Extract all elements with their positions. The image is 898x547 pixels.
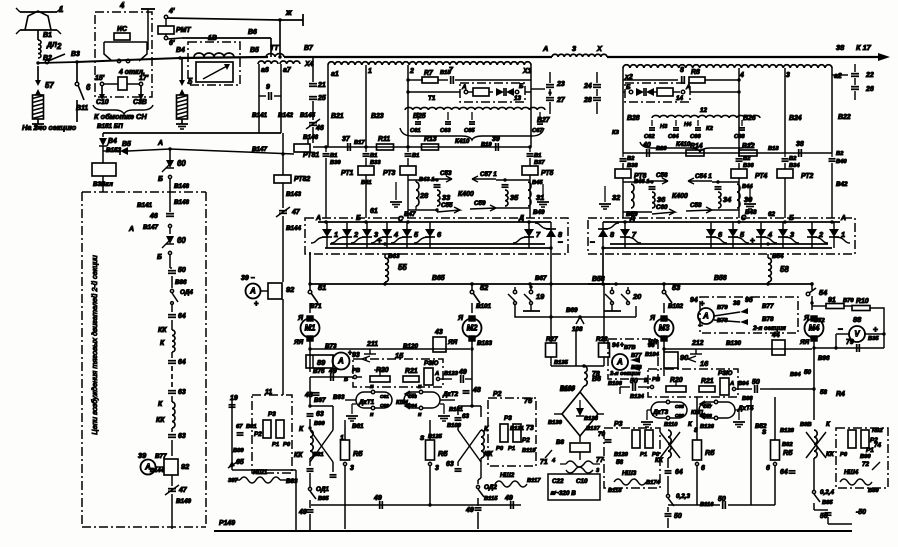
svg-text:Б: Б xyxy=(356,215,361,222)
relay ИС xyxy=(114,33,130,40)
svg-text:С59: С59 xyxy=(474,200,486,207)
svg-text:6': 6' xyxy=(169,40,175,47)
svg-text:н: н xyxy=(370,384,374,390)
svg-text:На 2-ю секцию: На 2-ю секцию xyxy=(22,123,77,132)
wire B147 xyxy=(170,149,294,154)
svg-text:44: 44 xyxy=(771,332,780,339)
svg-text:28: 28 xyxy=(583,97,592,104)
resistor R7 B15 cap 7 xyxy=(406,78,409,81)
cap 49 bottom M2 xyxy=(475,507,482,509)
resistor R5 M4 xyxy=(774,397,776,440)
svg-text:57: 57 xyxy=(45,81,54,90)
switch 51 xyxy=(309,284,311,290)
svg-text:2: 2 xyxy=(353,230,359,239)
svg-text:а2: а2 xyxy=(834,73,842,80)
svg-text:Б: Б xyxy=(158,176,163,183)
motor M3 xyxy=(661,316,667,321)
svg-text:62: 62 xyxy=(768,211,776,218)
svg-text:ДкТ1: ДкТ1 xyxy=(358,399,375,406)
ground 5 xyxy=(181,119,183,124)
svg-text:50: 50 xyxy=(804,369,812,376)
KK crossed coil M1 xyxy=(310,430,313,458)
svg-text:В3: В3 xyxy=(71,51,80,58)
svg-text:КК: КК xyxy=(156,417,165,424)
wire top to ж xyxy=(167,18,280,20)
svg-text:1В: 1В xyxy=(208,35,217,42)
bottom bus xyxy=(214,530,852,532)
svg-text:R28: R28 xyxy=(596,336,608,343)
bus B65 xyxy=(310,283,610,285)
svg-text:В94: В94 xyxy=(790,372,801,378)
svg-text:Р2: Р2 xyxy=(493,391,502,398)
tap verticals left transformer xyxy=(327,65,329,147)
svg-text:3: 3 xyxy=(350,465,354,472)
svg-text:-50: -50 xyxy=(856,509,866,516)
svg-text:R14: R14 xyxy=(690,143,703,150)
svg-text:В115: В115 xyxy=(484,496,498,502)
svg-text:С65: С65 xyxy=(464,128,475,134)
svg-text:50: 50 xyxy=(752,379,760,386)
svg-text:В149: В149 xyxy=(176,498,192,505)
terminal T top xyxy=(141,8,155,10)
svg-text:А: А xyxy=(157,140,163,147)
svg-text:R27: R27 xyxy=(546,336,558,343)
svg-text:R21: R21 xyxy=(405,368,418,375)
svg-text:13: 13 xyxy=(514,95,522,102)
svg-text:В128: В128 xyxy=(780,428,795,434)
svg-text:В1: В1 xyxy=(330,153,337,159)
capacitor 9 xyxy=(259,95,266,97)
svg-text:В8В: В8В xyxy=(800,422,812,428)
svg-text:49: 49 xyxy=(373,495,382,502)
svg-text:В18: В18 xyxy=(768,146,779,152)
svg-text:М4: М4 xyxy=(809,323,820,332)
svg-text:В146: В146 xyxy=(303,134,319,141)
svg-text:Р2: Р2 xyxy=(254,431,262,438)
svg-text:А: А xyxy=(729,381,734,387)
svg-text:а7: а7 xyxy=(283,67,292,74)
cap 46 B146 xyxy=(309,122,317,124)
ammeter box M3 xyxy=(608,339,658,379)
switch 2 xyxy=(36,61,39,64)
switch 19 double xyxy=(514,287,516,290)
svg-text:РЗЮ: РЗЮ xyxy=(424,360,439,367)
svg-text:Х4: Х4 xyxy=(304,61,314,68)
svg-text:74: 74 xyxy=(874,442,882,449)
row B94 50 cap xyxy=(770,388,814,390)
KK crossed coil M2 xyxy=(481,430,484,458)
svg-text:60: 60 xyxy=(177,236,186,245)
svg-text:В144: В144 xyxy=(286,225,302,232)
svg-text:С64: С64 xyxy=(668,134,679,140)
svg-text:211: 211 xyxy=(366,341,378,348)
relay ВЗВкл xyxy=(92,163,116,176)
svg-text:Н3: Н3 xyxy=(660,124,668,130)
svg-text:ЯЯ: ЯЯ xyxy=(293,339,304,346)
ground left of 32 xyxy=(604,186,606,202)
svg-text:В23: В23 xyxy=(371,113,384,120)
svg-text:52: 52 xyxy=(480,283,489,292)
M3 column B124 B126 xyxy=(619,387,621,394)
svg-text:48: 48 xyxy=(304,392,313,399)
svg-text:+: + xyxy=(700,299,705,308)
svg-text:К400: К400 xyxy=(672,193,688,200)
svg-text:А: А xyxy=(249,286,256,295)
svg-text:В101: В101 xyxy=(476,303,492,310)
svg-text:В48: В48 xyxy=(745,209,757,216)
svg-text:В2: В2 xyxy=(627,156,635,162)
svg-text:РЗЮ: РЗЮ xyxy=(718,370,733,377)
row R11 R13 K410 y150 xyxy=(313,146,366,148)
svg-text:С66: С66 xyxy=(690,134,701,140)
svg-text:В94: В94 xyxy=(738,381,749,387)
resistor 43 xyxy=(433,337,446,352)
svg-text:В11: В11 xyxy=(76,105,88,112)
svg-text:С53: С53 xyxy=(440,170,452,177)
svg-text:В130: В130 xyxy=(726,340,742,347)
wire НШ1 block to bottom bus xyxy=(295,480,297,530)
switch 20 double xyxy=(611,287,613,290)
resistor arrester 5 xyxy=(177,95,188,119)
svg-text:63: 63 xyxy=(462,413,470,420)
svg-text:48: 48 xyxy=(472,387,481,394)
PT4 branch xyxy=(736,158,743,160)
svg-text:В109: В109 xyxy=(447,423,462,429)
svg-text:2: 2 xyxy=(56,42,62,51)
svg-text:В81: В81 xyxy=(313,452,324,458)
svg-text:ДЛ: ДЛ xyxy=(46,42,57,49)
svg-text:С68: С68 xyxy=(734,134,745,140)
tap verticals right transformer xyxy=(622,68,624,153)
svg-text:В7: В7 xyxy=(304,45,314,52)
svg-text:39 −: 39 − xyxy=(241,275,255,282)
contact ОД1 xyxy=(308,487,311,490)
block M3 P-cluster R3 xyxy=(604,428,660,488)
ground right of 31 xyxy=(542,184,544,200)
caps 24 28 xyxy=(593,84,601,86)
cap 47 column xyxy=(279,210,287,212)
svg-text:В102: В102 xyxy=(668,303,684,310)
svg-text:12: 12 xyxy=(700,107,708,114)
svg-text:4': 4' xyxy=(168,8,175,15)
thyristor 60 xyxy=(169,149,171,160)
svg-text:Т1: Т1 xyxy=(428,95,436,102)
P-block 11 dash-dot xyxy=(252,395,292,473)
svg-text:КК: КК xyxy=(158,327,167,334)
svg-text:46: 46 xyxy=(149,213,158,220)
svg-text:В99: В99 xyxy=(314,421,325,427)
wire B138 column xyxy=(575,330,577,366)
svg-text:ИС: ИС xyxy=(117,26,128,33)
svg-text:94: 94 xyxy=(612,342,620,349)
svg-text:38: 38 xyxy=(796,141,804,148)
wire M2 R5 join B85 row xyxy=(428,503,431,506)
svg-text:С10: С10 xyxy=(576,478,588,485)
svg-text:В82: В82 xyxy=(782,442,793,448)
svg-text:РВ: РВ xyxy=(352,368,360,374)
svg-text:+: + xyxy=(254,299,259,308)
svg-text:28: 28 xyxy=(419,191,429,200)
svg-text:РТ82: РТ82 xyxy=(294,176,310,183)
svg-text:Р0: Р0 xyxy=(283,442,291,448)
coil cluster K400 34 30 right xyxy=(688,178,712,184)
svg-text:14: 14 xyxy=(676,95,684,102)
row B75 49 contacts xyxy=(310,376,353,378)
cap 49 bottom M1 xyxy=(307,509,314,511)
svg-text:В91: В91 xyxy=(246,424,257,430)
svg-text:1: 1 xyxy=(841,230,845,239)
relays P3 P2 P1 P0 right xyxy=(500,424,508,442)
ground 61 xyxy=(395,182,397,200)
svg-text:В85: В85 xyxy=(822,500,833,506)
svg-text:R8: R8 xyxy=(691,69,700,76)
wire M3 column down xyxy=(663,368,665,376)
svg-text:Р3: Р3 xyxy=(268,411,276,418)
svg-text:В21: В21 xyxy=(331,113,344,120)
svg-text:3: 3 xyxy=(435,465,439,472)
PT6 branch xyxy=(620,158,627,160)
svg-text:К400: К400 xyxy=(458,191,474,198)
svg-text:В49: В49 xyxy=(533,209,545,216)
PT3 branch xyxy=(405,153,412,155)
curly brace T1 xyxy=(400,128,544,140)
thyristor unit box A-Б 13 xyxy=(408,91,460,93)
svg-text:С81: С81 xyxy=(380,394,389,400)
svg-text:212: 212 xyxy=(691,340,704,347)
svg-text:С22: С22 xyxy=(552,478,564,485)
svg-text:54: 54 xyxy=(819,288,827,297)
grounds ДкТ xyxy=(352,403,356,405)
svg-text:А: А xyxy=(315,215,321,222)
svg-text:49: 49 xyxy=(458,369,467,376)
resistor 44 xyxy=(772,340,785,355)
svg-text:30: 30 xyxy=(744,195,753,204)
svg-text:В2: В2 xyxy=(836,151,844,157)
svg-text:С55: С55 xyxy=(441,202,453,209)
svg-text:Р3: Р3 xyxy=(504,415,512,422)
section-2 excitation dash-dot box xyxy=(81,192,83,527)
svg-text:В4: В4 xyxy=(176,47,185,54)
svg-text:ДкТ2: ДкТ2 xyxy=(442,391,459,398)
wire unit to X1 xyxy=(525,91,531,93)
bus inductor A-3-X xyxy=(552,54,607,57)
svg-text:В93: В93 xyxy=(333,394,345,401)
arrester 5 xyxy=(181,58,183,81)
svg-text:71: 71 xyxy=(540,459,548,466)
svg-text:61: 61 xyxy=(370,208,378,215)
wire B67 drop to R27 row xyxy=(550,284,552,330)
svg-text:С54 1: С54 1 xyxy=(695,173,712,180)
M4 column down xyxy=(813,348,815,420)
cap 50 bottom M3 xyxy=(665,513,672,515)
svg-text:Р1: Р1 xyxy=(508,446,515,452)
svg-text:НШ4: НШ4 xyxy=(844,469,859,476)
svg-text:С85: С85 xyxy=(675,404,684,410)
svg-text:R4: R4 xyxy=(836,391,845,398)
right thyristor bridge box xyxy=(588,218,855,254)
svg-text:РТ2: РТ2 xyxy=(801,173,814,180)
svg-text:В117: В117 xyxy=(527,478,541,484)
cap 47 B149 xyxy=(168,488,176,490)
left thyristor bridge box xyxy=(305,218,568,254)
svg-text:В2: В2 xyxy=(743,156,751,162)
svg-text:н: н xyxy=(418,384,422,390)
svg-text:В145: В145 xyxy=(300,112,316,119)
svg-text:РМТ: РМТ xyxy=(176,27,191,34)
ammeter box 94 95 center xyxy=(700,297,798,333)
svg-text:91: 91 xyxy=(828,297,836,304)
svg-text:В104: В104 xyxy=(645,352,660,358)
svg-text:63: 63 xyxy=(446,461,454,468)
svg-text:Р0: Р0 xyxy=(840,452,848,458)
arrow C58 xyxy=(686,207,712,213)
svg-text:А: А xyxy=(434,371,439,377)
svg-text:В121: В121 xyxy=(510,426,524,432)
svg-text:В77: В77 xyxy=(762,303,774,310)
svg-text:V: V xyxy=(854,329,860,338)
svg-text:В38: В38 xyxy=(627,163,638,169)
svg-text:21: 21 xyxy=(317,82,326,89)
svg-text:56: 56 xyxy=(616,459,624,466)
svg-text:2: 2 xyxy=(409,68,414,75)
svg-text:Б: Б xyxy=(626,84,631,91)
svg-text:75: 75 xyxy=(524,396,533,405)
svg-text:90: 90 xyxy=(680,353,689,362)
svg-text:1: 1 xyxy=(368,68,372,75)
svg-text:А: А xyxy=(616,357,623,366)
svg-text:2: 2 xyxy=(818,230,824,239)
svg-text:−: − xyxy=(838,324,843,334)
wire bridge left end to B65 xyxy=(309,252,311,284)
svg-text:В139: В139 xyxy=(548,420,563,426)
svg-text:R7: R7 xyxy=(424,70,434,77)
M3 bottom wires xyxy=(663,348,665,352)
svg-text:РТ5: РТ5 xyxy=(541,170,554,177)
svg-text:К3: К3 xyxy=(612,130,620,136)
svg-text:39: 39 xyxy=(492,136,500,143)
svg-text:В183: В183 xyxy=(477,340,493,347)
PT1 branch xyxy=(323,153,330,155)
caps 48 down xyxy=(309,377,311,390)
svg-text:М3: М3 xyxy=(659,323,670,332)
svg-text:В86: В86 xyxy=(175,279,187,286)
ground right of 30 xyxy=(749,186,751,202)
svg-text:50: 50 xyxy=(820,513,828,520)
svg-text:С56: С56 xyxy=(656,172,668,179)
shunt 89 ammeter 93 xyxy=(306,355,333,368)
arrester arrow 57 xyxy=(37,66,39,81)
svg-text:С63: С63 xyxy=(440,128,451,134)
svg-text:В33: В33 xyxy=(370,160,381,166)
switch 53 xyxy=(663,284,665,290)
svg-text:R10: R10 xyxy=(856,298,869,305)
svg-text:73: 73 xyxy=(526,425,534,432)
relays P3 P2 P1 P0 left xyxy=(263,420,271,438)
svg-text:В7В: В7В xyxy=(624,345,636,351)
svg-text:0,2,3: 0,2,3 xyxy=(676,493,691,500)
svg-text:R5: R5 xyxy=(783,448,793,457)
svg-text:В67: В67 xyxy=(535,275,547,282)
svg-text:Р3: Р3 xyxy=(614,421,623,428)
wire B116 row 50 xyxy=(668,504,720,506)
svg-text:38: 38 xyxy=(733,300,741,307)
svg-text:К2: К2 xyxy=(706,126,714,132)
svg-text:С86: С86 xyxy=(675,413,684,419)
svg-text:В44: В44 xyxy=(742,184,753,190)
svg-text:23: 23 xyxy=(556,81,565,88)
svg-text:Р2: Р2 xyxy=(522,437,530,444)
svg-text:49: 49 xyxy=(465,507,474,514)
cap 64a xyxy=(168,314,176,316)
svg-text:64: 64 xyxy=(178,359,186,366)
wire bridge right box to B58 xyxy=(602,248,604,284)
svg-text:В136: В136 xyxy=(560,387,575,393)
svg-text:В28: В28 xyxy=(627,115,640,122)
svg-text:19: 19 xyxy=(536,292,545,301)
cap 8 R8 xyxy=(737,78,740,81)
svg-text:R12: R12 xyxy=(742,143,755,150)
svg-text:3: 3 xyxy=(786,72,790,79)
svg-text:ОД4: ОД4 xyxy=(180,289,193,296)
svg-text:92: 92 xyxy=(286,285,295,294)
svg-text:Б: Б xyxy=(644,378,648,384)
svg-text:63: 63 xyxy=(178,433,186,440)
relay РЗЮ xyxy=(424,368,433,385)
svg-text:М2: М2 xyxy=(467,323,478,332)
svg-text:88: 88 xyxy=(853,315,862,324)
svg-text:2-я секция: 2-я секция xyxy=(609,371,641,377)
cap 19 xyxy=(231,398,233,470)
svg-text:6: 6 xyxy=(766,465,770,472)
svg-text:В147: В147 xyxy=(252,146,268,153)
svg-text:92: 92 xyxy=(181,462,190,471)
svg-text:В37: В37 xyxy=(534,160,545,166)
svg-text:50: 50 xyxy=(630,378,638,385)
svg-text:В110: В110 xyxy=(664,422,678,428)
svg-text:КК: КК xyxy=(655,457,664,464)
ground arrester xyxy=(37,119,39,124)
svg-text:Р1: Р1 xyxy=(272,442,279,448)
svg-text:В56: В56 xyxy=(714,275,727,282)
svg-text:≅~320 В: ≅~320 В xyxy=(550,490,576,497)
wire B85 row with 49 cap xyxy=(311,504,478,506)
svg-text:46: 46 xyxy=(315,125,324,132)
row 40 K410 R14 R12 B18 38 xyxy=(623,152,832,154)
svg-text:В97: В97 xyxy=(314,397,326,404)
wire bridge minus drop xyxy=(550,248,552,284)
shunt 90 xyxy=(664,352,678,368)
svg-text:47: 47 xyxy=(178,487,188,494)
svg-text:8: 8 xyxy=(680,67,684,74)
ДкТ2 cluster xyxy=(404,392,440,408)
svg-text:В1: В1 xyxy=(412,153,419,159)
svg-text:ОД1: ОД1 xyxy=(316,486,329,493)
svg-text:67: 67 xyxy=(236,424,243,430)
svg-text:Р1: Р1 xyxy=(640,452,647,458)
svg-text:В27: В27 xyxy=(537,117,551,124)
relay PT81 xyxy=(307,139,309,144)
cap 63a xyxy=(168,390,176,392)
svg-text:н: н xyxy=(370,412,374,418)
svg-text:а6: а6 xyxy=(261,67,269,74)
svg-text:В25: В25 xyxy=(413,113,426,120)
svg-text:16: 16 xyxy=(700,359,709,368)
svg-text:В36: В36 xyxy=(743,163,754,169)
svg-text:НШ2: НШ2 xyxy=(500,472,515,479)
resistor arrester xyxy=(33,95,44,119)
svg-text:В89: В89 xyxy=(868,488,879,494)
svg-text:В65: В65 xyxy=(432,275,445,282)
